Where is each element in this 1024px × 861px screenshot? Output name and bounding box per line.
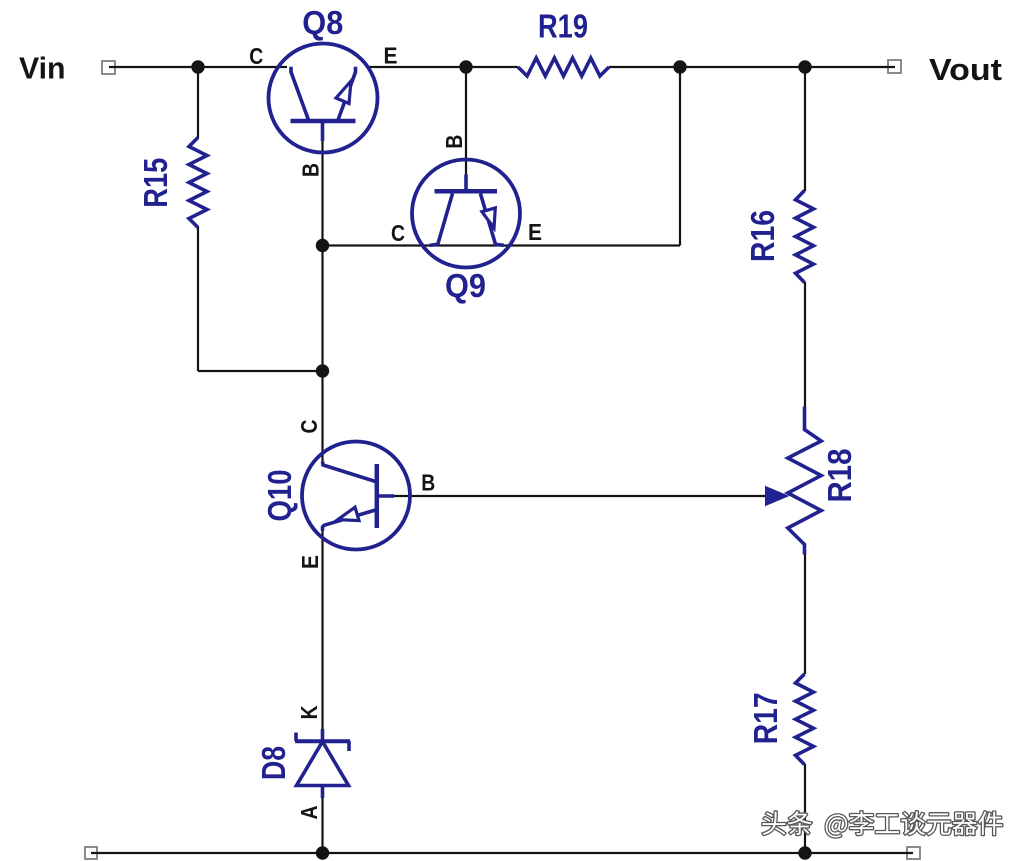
transistor Q9 base bar xyxy=(435,189,498,194)
resistor R19 xyxy=(518,58,609,76)
wire R18 bottom to R17 top xyxy=(804,554,806,674)
wire Vin to node A xyxy=(109,66,198,68)
node D junction xyxy=(798,60,811,73)
resistor R15 xyxy=(189,138,207,228)
wire Q8 base down to node E xyxy=(321,140,323,246)
potentiometer R18 wiper arrow xyxy=(766,487,789,506)
svg-text:C: C xyxy=(249,43,263,69)
resistor R16 xyxy=(796,191,814,283)
svg-text:R16: R16 xyxy=(744,210,781,262)
resistor R17 xyxy=(796,674,814,765)
transistor Q10 emitter arrow xyxy=(338,507,359,520)
svg-text:C: C xyxy=(391,220,405,246)
transistor Q8 emitter arrow xyxy=(336,81,351,104)
svg-text:Q10: Q10 xyxy=(261,470,298,522)
transistor Q10 emitter lead xyxy=(323,510,376,531)
transistor Q8 circle xyxy=(269,44,378,153)
svg-text:D8: D8 xyxy=(255,746,292,780)
transistor Q8 emitter lead xyxy=(338,67,356,120)
transistor Q9 circle xyxy=(412,160,520,268)
transistor Q10 base bar xyxy=(375,464,380,528)
wire R15 bottom to node F xyxy=(198,370,323,372)
node G junction bottom rail left xyxy=(316,846,329,859)
wire node B down to Q9 base xyxy=(465,67,467,175)
wire Q10 base to R18 wiper arrow xyxy=(394,495,766,497)
svg-text:E: E xyxy=(297,555,323,569)
watermark text 头条@李工谈元器件 xyxy=(762,811,1002,837)
transistor Q8 base bar xyxy=(291,119,356,124)
svg-text:R17: R17 xyxy=(747,692,784,744)
transistor Q9 collector lead xyxy=(430,194,453,246)
svg-text:R19: R19 xyxy=(538,8,588,45)
wire node F down to Q10 collector xyxy=(321,371,323,462)
wire R16 bottom to R18 top xyxy=(804,282,806,407)
transistor Q9 emitter arrow xyxy=(482,208,495,228)
svg-text:Q9: Q9 xyxy=(445,267,486,304)
node H junction bottom rail right xyxy=(798,846,811,859)
svg-text:Vout: Vout xyxy=(929,52,1002,87)
svg-text:R15: R15 xyxy=(137,158,174,208)
node C junction xyxy=(673,60,686,73)
zener diode D8 anode lead xyxy=(321,786,325,799)
zener diode D8 triangle xyxy=(297,742,349,786)
svg-text:E: E xyxy=(528,219,542,245)
wire D8 anode to bottom rail xyxy=(321,797,323,853)
terminal bottom right xyxy=(907,847,920,859)
svg-text:B: B xyxy=(298,163,324,177)
wire node A to Q8 collector xyxy=(198,66,287,68)
zener diode D8 right tick xyxy=(347,741,351,751)
wire right riser node C down to Q9 emitter level xyxy=(679,67,681,246)
wire node D to Vout terminal xyxy=(805,66,895,68)
svg-text:C: C xyxy=(296,419,322,433)
node E junction xyxy=(316,239,329,252)
wire node A down to R15 top xyxy=(197,67,199,138)
node B junction xyxy=(459,60,472,73)
wire node E to node F xyxy=(321,246,323,372)
svg-text:K: K xyxy=(296,705,322,719)
transistor Q8 collector lead xyxy=(291,67,309,120)
transistor Q10 base lead xyxy=(377,494,394,498)
svg-text:B: B xyxy=(441,135,467,149)
wire R17 bottom to bottom rail xyxy=(804,764,806,853)
node A junction xyxy=(191,60,204,73)
svg-text:R18: R18 xyxy=(821,449,858,503)
wire bottom rail xyxy=(91,852,913,854)
wire Q10 emitter down to D8 cathode xyxy=(321,531,323,729)
wire R19 right to node C xyxy=(609,66,680,68)
wire node C to node D xyxy=(680,66,805,68)
transistor Q9 base lead xyxy=(464,175,468,192)
wire Q8 emitter to node B xyxy=(367,66,466,68)
transistor Q8 base lead xyxy=(321,121,325,141)
node F junction xyxy=(316,364,329,377)
svg-text:B: B xyxy=(421,470,435,496)
svg-text:Q8: Q8 xyxy=(302,4,343,41)
transistor Q10 circle xyxy=(302,442,410,550)
zener diode D8 left tick xyxy=(294,733,298,742)
terminal Vout xyxy=(888,60,901,73)
svg-text:Vin: Vin xyxy=(19,51,66,86)
wire node D down to R16 top xyxy=(804,67,806,191)
wire node B to R19 left xyxy=(466,66,518,68)
svg-text:A: A xyxy=(296,805,322,819)
wire R15 bottom down xyxy=(197,227,199,371)
terminal bottom left xyxy=(85,847,97,859)
transistor Q9 emitter lead xyxy=(480,194,503,246)
wire node E through Q9 to right riser xyxy=(323,244,681,246)
potentiometer R18 body xyxy=(788,407,821,555)
terminal Vin xyxy=(102,61,115,74)
zener diode D8 cathode lead xyxy=(321,729,325,741)
transistor Q10 collector lead xyxy=(323,462,376,482)
svg-text:E: E xyxy=(384,43,398,69)
zener diode D8 cathode bar xyxy=(295,739,350,743)
